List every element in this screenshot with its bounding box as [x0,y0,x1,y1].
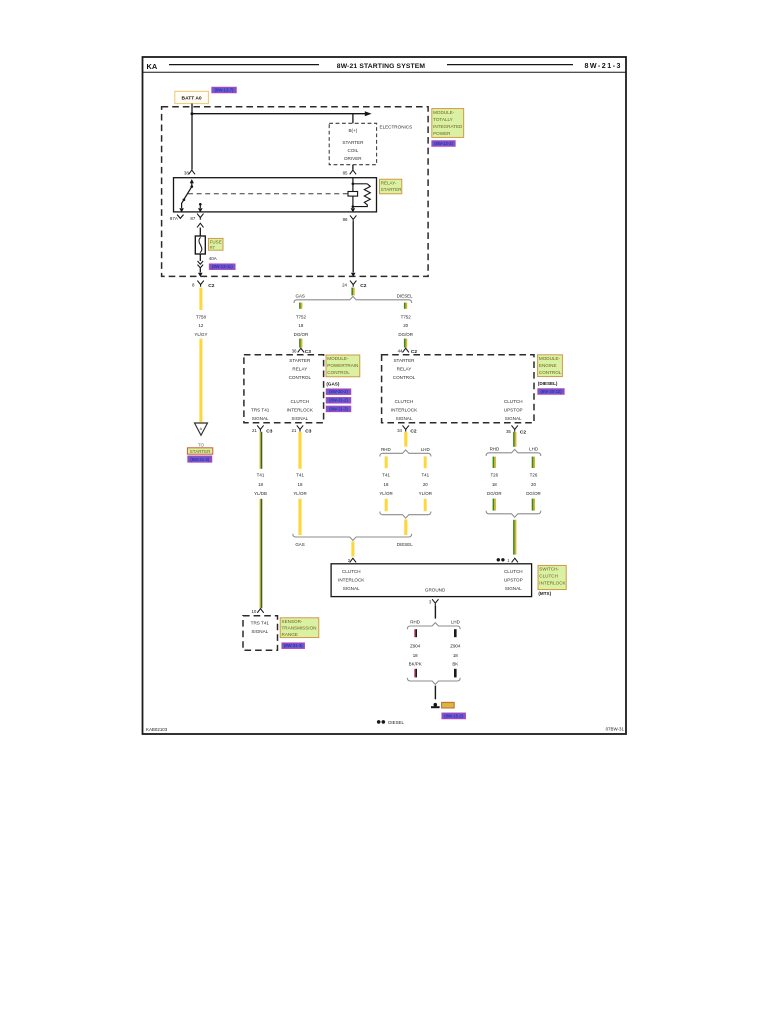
svg-text:LHD: LHD [421,447,430,452]
pin 24 C2 [342,281,367,289]
wire battery feed horizontal with arrow [192,111,372,116]
svg-text:RHD: RHD [490,446,500,451]
svg-text:POWER: POWER [433,131,451,136]
svg-text:CLUTCH: CLUTCH [395,399,414,404]
pin 8 C2 [192,281,215,289]
wire label T41 20 YL/OR lhd [419,472,432,496]
pin 44 C2 [398,348,418,355]
ECM pin 34 C2 [397,425,417,434]
svg-text:(8W-13-11): (8W-13-11) [212,264,233,269]
label 40A [209,256,217,261]
fuse label FUSE #7 [208,238,223,250]
wire to ground [434,686,436,700]
wire T758 upper [199,288,202,310]
svg-text:STARTER: STARTER [381,187,402,192]
svg-text:SIGNAL: SIGNAL [505,586,522,591]
svg-text:(8W-13-2): (8W-13-2) [434,141,453,146]
wire label Z904 18 BK [450,643,461,666]
reference (8W-30-2) [326,389,351,395]
PCM pin labels [251,358,314,421]
label GAS merge [295,542,304,547]
module PCM label MODULE-POWERTRAIN CONTROL [326,355,360,377]
svg-text:BATT A0: BATT A0 [182,96,202,102]
svg-text:SIGNAL: SIGNAL [396,416,413,421]
label TO STARTER [187,442,212,454]
pin 1 [507,558,518,563]
svg-text:GROUND: GROUND [425,587,446,592]
wire T752 gas [299,339,302,348]
pin 85 [343,165,357,176]
module ECM dashed outline [382,355,534,423]
module PCM dashed outline [244,355,324,423]
svg-text:MODULE-: MODULE- [539,356,561,361]
relay starter box [174,178,377,212]
svg-text:B(+): B(+) [348,128,357,133]
svg-text:DIESEL: DIESEL [397,294,413,299]
B(+) starter coil driver dashed box [329,123,376,164]
svg-text:07BW-31: 07BW-31 [606,727,625,732]
label B(+) STARTER COIL DRIVER [342,128,364,161]
svg-text:CONTROL: CONTROL [539,370,562,375]
wire label T41 18 YL/OR [293,472,306,496]
wire label Z904 18 BK/PK [409,643,422,666]
switch label SWITCH-CLUTCH INTERLOCK [538,565,567,589]
svg-text:RELAY-: RELAY- [381,180,397,185]
brace split GAS/DIESEL [294,296,412,303]
wire t41 rhd stub a [385,456,388,468]
PCM pin 21 C3 right [291,425,311,434]
wire label T752 18 DG/OR [294,314,309,336]
svg-text:12: 12 [198,323,203,328]
page border frame [143,57,627,734]
svg-text:20: 20 [403,323,408,328]
wire label T26 18 DG/OR rhd [487,473,502,496]
svg-text:YL/DB: YL/DB [254,491,267,496]
wire t41 lhd stub b [424,499,427,511]
svg-text:(8W-31-3): (8W-31-3) [284,643,303,648]
reference (8W-13-11) [209,264,235,270]
svg-text:C3: C3 [266,429,272,435]
label LHD t26 [529,446,538,451]
wire T752 diesel stub [404,303,407,309]
svg-text:T41: T41 [382,472,390,477]
brace merge t26 [486,511,541,518]
svg-text:18: 18 [413,653,418,658]
pin 3 [429,599,439,605]
battery feed BATT A0 box [175,91,209,103]
PCM pin 21 C3 left [252,425,273,434]
svg-text:TRANSMISSION: TRANSMISSION [282,626,317,631]
label RHD t26 [490,446,500,451]
svg-text:18: 18 [298,482,303,487]
svg-text:C2: C2 [208,283,214,289]
svg-text:C2: C2 [360,283,366,289]
svg-text:UPSTOP: UPSTOP [504,408,523,413]
svg-text:DG/OR: DG/OR [294,332,309,337]
wire label T758 12 YL/GY [194,314,207,336]
pin 38 [184,170,195,176]
wire ground stub [434,605,436,618]
svg-text:18: 18 [453,653,458,658]
svg-text:87A: 87A [170,216,178,221]
brace split t41 [380,450,431,457]
pin 10 [251,609,263,615]
svg-text:Z904: Z904 [410,643,421,648]
svg-text:SENSOR-: SENSOR- [282,619,303,624]
svg-text:(DIESEL): (DIESEL) [538,381,558,386]
svg-text:DG/OR: DG/OR [398,332,413,337]
label RHD t41 [381,447,391,452]
svg-text:TRS T41: TRS T41 [251,408,270,413]
svg-text:SIGNAL: SIGNAL [505,416,522,421]
brace merge t41 [380,512,431,519]
label ELECTRONICS [380,125,413,130]
wire battery feed vertical [191,104,193,170]
svg-text:GAS: GAS [296,294,305,299]
reference (8W-31-3) sensor [282,643,305,649]
svg-text:87: 87 [190,216,195,221]
label DIESEL [397,294,413,299]
wire fuse to connector [198,254,204,277]
svg-text:CLUTCH: CLUTCH [504,569,523,574]
fuse F7 40A [195,236,205,254]
brace merge GAS/DIESEL [293,534,412,541]
svg-text:T752: T752 [401,314,412,319]
svg-text:18: 18 [492,482,497,487]
svg-text:C2: C2 [410,429,416,435]
svg-text:C3: C3 [305,349,311,355]
wire drop to B(+) [352,114,354,124]
svg-text:BK/PK: BK/PK [409,662,422,667]
reference (8W-21-4) [188,456,212,462]
svg-text:INTEGRATED: INTEGRATED [433,124,463,129]
svg-text:RHD: RHD [410,620,420,625]
svg-text:POWERTRAIN: POWERTRAIN [327,363,358,368]
wire t26 lhd stub a [532,457,535,468]
svg-text:20: 20 [531,482,536,487]
svg-text:(MTX): (MTX) [538,591,551,596]
ECM pin 35 C2 [506,425,526,435]
wire t41 rhd stub b [385,499,388,511]
label RHD z904 [410,620,420,625]
svg-text:21: 21 [252,428,257,433]
pin 87A [170,215,184,221]
svg-text:85: 85 [343,171,348,176]
svg-text:#7: #7 [210,245,216,250]
svg-text:SIGNAL: SIGNAL [291,416,308,421]
wire t26 lhd stub b [532,499,535,511]
svg-text:STARTER: STARTER [393,358,415,363]
svg-text:44: 44 [398,348,403,353]
svg-text:(8W-15-2): (8W-15-2) [444,713,463,718]
wire T41 YL/DB lower [259,499,262,608]
svg-text:TRS T41: TRS T41 [251,621,270,626]
svg-text:(8W-31-2): (8W-31-2) [329,398,348,403]
svg-text:YL/OR: YL/OR [419,491,432,496]
brace split z904 [407,623,460,630]
svg-text:36: 36 [292,348,297,353]
svg-text:ENGINE: ENGINE [539,363,557,368]
svg-text:TO: TO [198,442,205,447]
wire t41 lhd stub a [424,456,427,468]
module TIPM label MODULE-TOTALLY INTEGRATED POWER [432,109,464,138]
wire z904 lhd stub a [454,629,457,637]
svg-text:(8W-21-4): (8W-21-4) [190,457,209,462]
relay control dashed line [188,193,348,195]
svg-text:T41: T41 [296,472,304,477]
svg-text:MODULE-: MODULE- [433,110,455,115]
node battery junction [191,112,194,115]
svg-text:(GAS): (GAS) [326,381,339,386]
svg-text:UPSTOP: UPSTOP [504,577,523,582]
svg-text:RANGE: RANGE [282,632,298,637]
svg-text:STARTER: STARTER [190,449,211,454]
reference (8W-31-3) [326,406,351,412]
wire t26 merged [513,520,516,555]
switch clutch interlock box [331,564,531,597]
svg-text:INTERLOCK: INTERLOCK [391,408,418,413]
reference (8W-13-7) [212,87,237,93]
brace split t26 [486,449,541,456]
svg-text:CONTROL: CONTROL [393,375,416,380]
svg-text:G101: G101 [443,703,454,708]
label DIESEL merge [397,542,413,547]
wire pin35 stub [513,432,516,447]
svg-text:DIESEL: DIESEL [397,542,413,547]
svg-text:(8W-30-22): (8W-30-22) [540,389,562,394]
svg-text:INTERLOCK: INTERLOCK [287,408,314,413]
svg-text:DRIVER: DRIVER [344,156,362,161]
svg-text:SIGNAL: SIGNAL [252,416,269,421]
svg-text:86: 86 [343,217,348,222]
wire t41 merged [404,519,407,535]
svg-text:C2: C2 [411,349,417,355]
pin 2 [348,558,356,563]
svg-text:T41: T41 [421,472,429,477]
svg-text:34: 34 [397,428,402,433]
wire T41 YL/OR upper [298,432,301,469]
svg-text:CLUTCH: CLUTCH [290,399,309,404]
svg-text:40A: 40A [209,256,217,261]
legend diesel marker [377,720,405,725]
ECM pin labels [391,358,523,421]
svg-text:YL/OR: YL/OR [379,491,392,496]
sensor TRS dashed outline [243,616,278,651]
svg-text:STARTER: STARTER [342,140,364,145]
wire z904 lhd stub b [454,669,457,678]
svg-text:C2: C2 [520,429,526,435]
svg-text:COIL: COIL [348,148,359,153]
reference (8W-15-2) [442,713,466,719]
svg-text:CLUTCH: CLUTCH [342,569,361,574]
svg-text:LHD: LHD [529,446,538,451]
svg-text:35: 35 [506,429,511,434]
svg-text:GAS: GAS [295,542,304,547]
svg-text:RELAY: RELAY [397,367,412,372]
wire t26 rhd stub a [493,457,496,468]
svg-text:38: 38 [184,171,189,176]
wire label T26 20 DG/OR lhd [526,473,541,496]
svg-text:T41: T41 [257,472,265,477]
svg-text:(8W-31-3): (8W-31-3) [329,406,348,411]
relay switch arm [179,179,194,212]
svg-text:(8W-30-2): (8W-30-2) [329,389,348,394]
svg-text:8W-21-3: 8W-21-3 [584,62,622,70]
wire z904 rhd stub a [414,629,417,637]
pin 36 C3 [292,348,312,355]
svg-text:CONTROL: CONTROL [289,375,312,380]
reference (8W-31-2) [326,398,351,404]
svg-text:DG/OR: DG/OR [487,491,502,496]
svg-text:CONTROL: CONTROL [327,370,350,375]
svg-text:T752: T752 [296,314,307,319]
wire label T41 18 YL/OR rhd [379,472,392,496]
svg-text:BK: BK [452,662,458,667]
svg-text:T26: T26 [530,473,538,478]
wire T752 gas stub [299,303,302,309]
svg-text:24: 24 [342,282,347,287]
svg-text:CLUTCH: CLUTCH [539,574,558,579]
svg-text:C3: C3 [305,429,311,435]
svg-text:DIESEL: DIESEL [388,720,404,725]
relay label RELAY-STARTER [380,179,403,194]
label (DIESEL) [538,381,558,386]
header band [143,62,627,72]
svg-text:KAB02103: KAB02103 [146,727,168,732]
svg-text:LHD: LHD [451,620,460,625]
reference (8W-13-2) [432,141,455,147]
svg-text:MODULE-: MODULE- [327,356,349,361]
svg-text:SIGNAL: SIGNAL [251,629,268,634]
svg-text:YL/OR: YL/OR [293,491,306,496]
svg-text:T26: T26 [490,473,498,478]
wire to pin 2 [351,541,354,556]
pin 87 [190,214,203,236]
wire T752 diesel [404,339,407,348]
svg-text:8W-21 STARTING SYSTEM: 8W-21 STARTING SYSTEM [337,63,426,70]
sensor label SENSOR-TRANSMISSION RANGE [280,618,319,638]
svg-text:10: 10 [251,609,256,614]
svg-text:18: 18 [298,323,303,328]
label LHD z904 [451,620,460,625]
svg-text:SIGNAL: SIGNAL [343,586,360,591]
wire label T41 18 YL/DB [254,472,267,496]
switch pin labels [338,569,523,593]
svg-text:SWITCH-: SWITCH- [539,567,559,572]
wire label T752 20 DG/OR [398,314,413,336]
footer plate codes [146,727,625,733]
wire stub below pin 24 [351,288,354,296]
wire 86 to pin 24 [351,221,356,277]
ground label G101 [442,702,455,708]
svg-text:TOTALLY: TOTALLY [433,117,453,122]
svg-text:Z904: Z904 [450,643,461,648]
svg-text:INTERLOCK: INTERLOCK [338,577,365,582]
module ECM label MODULE-ENGINE CONTROL [538,355,563,377]
label GAS [296,294,305,299]
relay coil circuit [348,178,370,213]
ground G101 symbol [431,703,440,707]
svg-text:18: 18 [384,482,389,487]
label (MTX) [538,591,551,596]
wire t26 rhd stub b [493,499,496,511]
svg-text:18: 18 [258,482,263,487]
wire T41 YL/OR lower [298,499,301,535]
diesel marker dots pin 1 [497,558,505,561]
svg-text:20: 20 [423,482,428,487]
label (GAS) [326,381,339,386]
reference (8W-30-22) [538,389,564,395]
svg-text:(8W-13-7): (8W-13-7) [215,87,234,92]
svg-text:21: 21 [291,428,296,433]
wire T41 YL/DB upper [259,432,262,469]
svg-text:KA: KA [147,62,158,71]
svg-text:STARTER: STARTER [289,358,311,363]
svg-text:CLUTCH: CLUTCH [504,399,523,404]
svg-text:DG/OR: DG/OR [526,491,541,496]
svg-text:RHD: RHD [381,447,391,452]
wire pin34 stub [404,432,407,447]
svg-text:ELECTRONICS: ELECTRONICS [380,125,413,130]
svg-text:INTERLOCK: INTERLOCK [539,581,566,586]
svg-text:A: A [200,427,203,431]
TRS pin label [251,621,270,634]
label LHD t41 [421,447,430,452]
svg-text:RELAY: RELAY [292,367,307,372]
svg-text:T758: T758 [196,314,207,319]
relay contact 87 stub [198,203,203,212]
off-page connector A triangle [195,423,208,435]
module TIPM dashed outline [162,107,429,277]
svg-text:YL/GY: YL/GY [194,332,207,337]
wire T758 lower [199,339,202,423]
pin 86 [343,215,357,222]
brace merge z904 [407,678,460,685]
svg-text:FUSE: FUSE [210,239,222,244]
wire z904 rhd stub b [414,669,417,678]
